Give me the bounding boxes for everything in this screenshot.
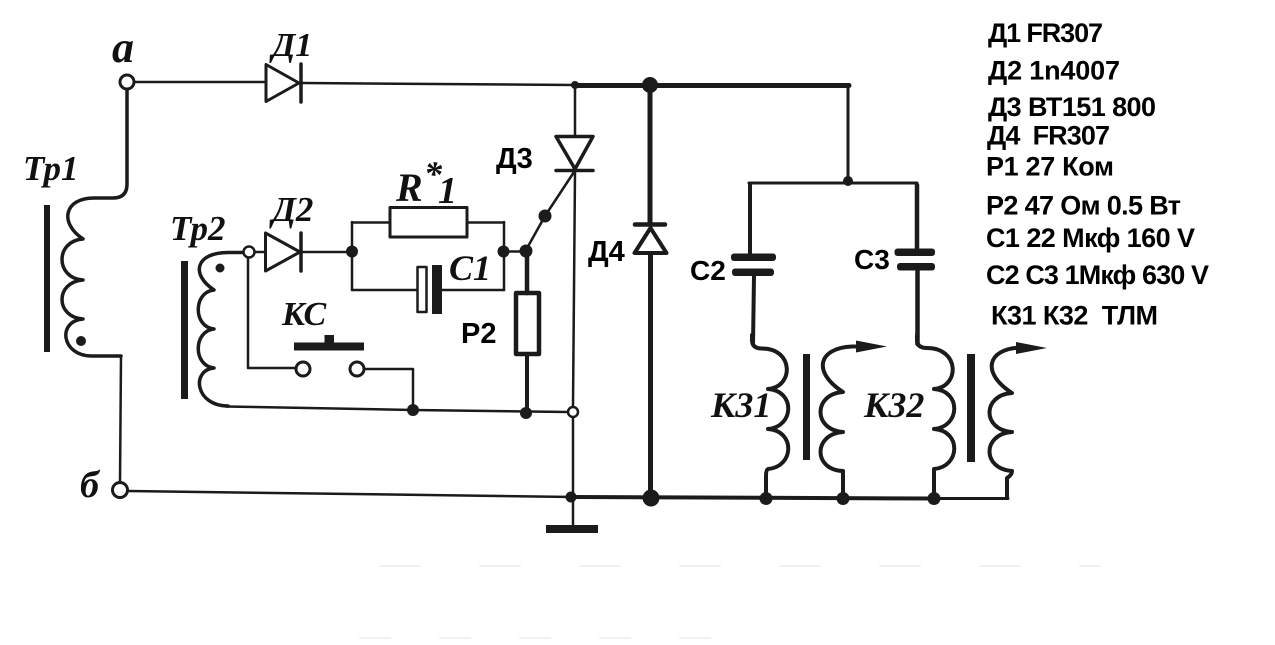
svg-text:Р1 27 Ком: Р1 27 Ком [986, 152, 1114, 182]
svg-text:С2: С2 [690, 255, 726, 286]
svg-text:Д4 FR307: Д4 FR307 [987, 121, 1110, 151]
svg-text:Тр1: Тр1 [23, 149, 79, 188]
svg-text:Д2: Д2 [269, 190, 313, 229]
svg-text:R: R [395, 165, 423, 210]
svg-text:б: б [80, 464, 101, 506]
svg-text:Д3 ВТ151 800: Д3 ВТ151 800 [988, 92, 1156, 122]
svg-text:1: 1 [438, 170, 457, 212]
svg-text:К31 К32 ТЛМ: К31 К32 ТЛМ [991, 300, 1158, 330]
svg-text:Д3: Д3 [496, 143, 533, 175]
svg-text:Р2: Р2 [461, 318, 496, 350]
svg-text:Д1 FR307: Д1 FR307 [988, 18, 1103, 48]
svg-text:Д4: Д4 [588, 236, 625, 268]
svg-text:Р2 47 Ом 0.5 Вт: Р2 47 Ом 0.5 Вт [986, 191, 1181, 221]
svg-text:Тр2: Тр2 [170, 209, 226, 248]
svg-text:а: а [112, 23, 134, 72]
svg-text:С1: С1 [449, 248, 491, 288]
svg-text:С2 С3 1Мкф 630 V: С2 С3 1Мкф 630 V [986, 260, 1209, 290]
svg-text:КС: КС [281, 296, 326, 333]
svg-text:С3: С3 [854, 244, 890, 275]
svg-text:С1 22 Мкф 160 V: С1 22 Мкф 160 V [986, 223, 1195, 253]
svg-text:Д2 1n4007: Д2 1n4007 [988, 56, 1120, 86]
svg-text:Д1: Д1 [269, 27, 312, 64]
svg-text:К32: К32 [863, 385, 924, 425]
svg-text:К31: К31 [710, 385, 771, 425]
